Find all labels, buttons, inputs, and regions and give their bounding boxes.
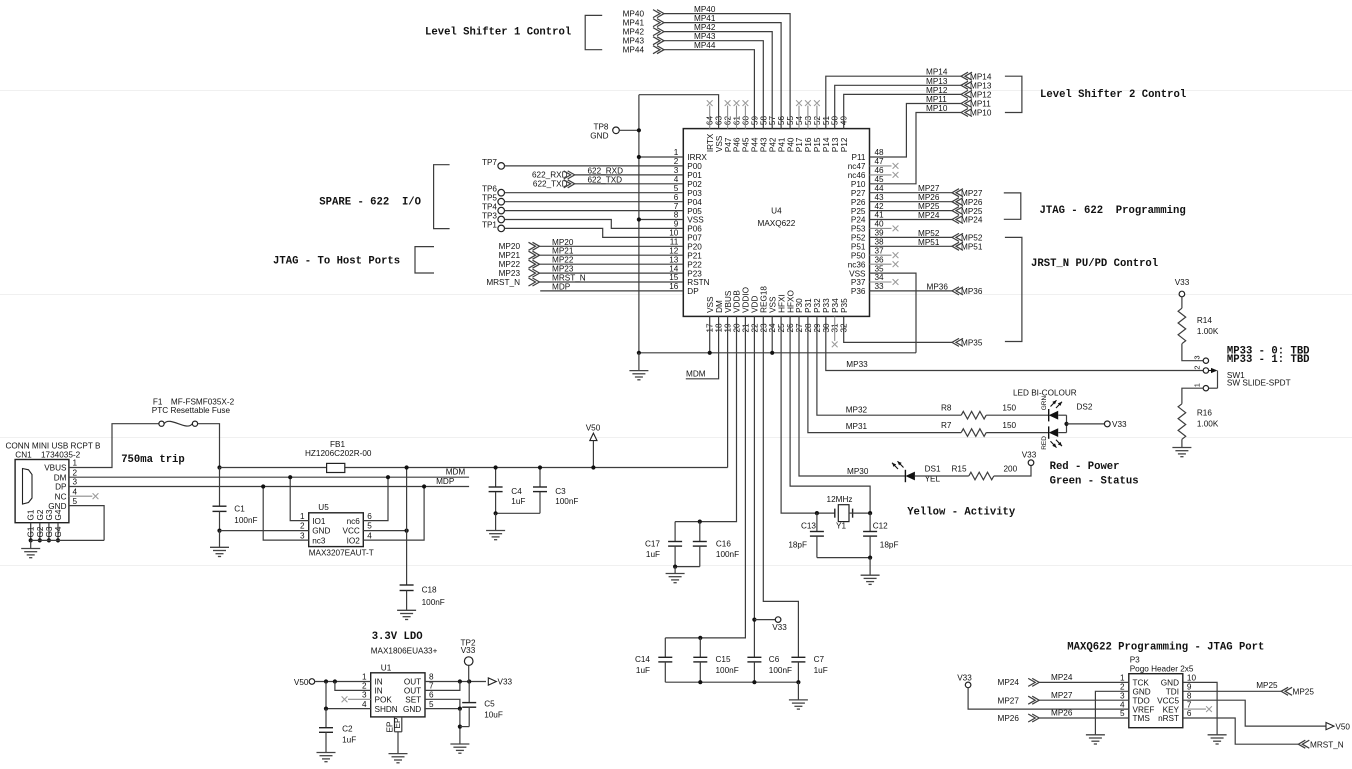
svg-text:P35: P35: [840, 298, 849, 313]
wire R14 to SW1 pin3: [1182, 344, 1203, 361]
svg-text:V33: V33: [1175, 278, 1190, 287]
svg-text:6: 6: [429, 691, 434, 700]
svg-text:MP27: MP27: [961, 189, 983, 198]
svg-text:5: 5: [429, 700, 434, 709]
svg-text:MP51: MP51: [961, 243, 983, 252]
svg-text:P3: P3: [1130, 656, 1140, 665]
svg-text:9: 9: [674, 220, 679, 229]
wire net MP21 to U4 pin 12: [540, 254, 684, 256]
U1 pin3 POK no-connect: [348, 698, 371, 700]
svg-text:P53: P53: [851, 225, 866, 234]
svg-text:Level Shifter 2 Control: Level Shifter 2 Control: [1040, 89, 1186, 101]
svg-text:37: 37: [875, 246, 885, 255]
wire net MP22 to U4 pin 13: [540, 263, 684, 265]
svg-text:1: 1: [1120, 674, 1125, 683]
svg-text:12MHz: 12MHz: [827, 495, 853, 504]
svg-text:C6: C6: [769, 655, 780, 664]
resistor R8 150: [961, 411, 986, 419]
wire SW1 pin1 to R16: [1182, 388, 1203, 404]
svg-text:C18: C18: [422, 586, 437, 595]
svg-text:43: 43: [875, 193, 885, 202]
wire net 622_RXD to U4 pin 3: [575, 174, 684, 176]
svg-text:TP1: TP1: [482, 220, 497, 229]
wire VSS vertical (TP8/pin1/pin8/pin63): [638, 95, 640, 353]
svg-text:G1: G1: [27, 509, 36, 520]
svg-text:5: 5: [1120, 709, 1125, 718]
svg-text:5: 5: [674, 184, 679, 193]
svg-text:3: 3: [1193, 355, 1202, 359]
svg-text:4: 4: [1120, 700, 1125, 709]
wire net MP43 to U4 pin 58: [664, 41, 763, 129]
svg-text:MP44: MP44: [694, 41, 716, 50]
wire net MP24 to P3 pin1 TCK: [1039, 681, 1129, 683]
svg-text:P25: P25: [851, 207, 866, 216]
svg-text:MP40: MP40: [623, 10, 645, 19]
svg-text:C12: C12: [873, 521, 888, 530]
svg-text:MP41: MP41: [623, 19, 645, 28]
wire ground bus below U4: [639, 352, 916, 354]
node junction HFXO/C12: [868, 511, 872, 515]
wire TP7 to U4 pin 2: [505, 165, 684, 167]
wire TP3 to U4 pin 9 P06: [505, 220, 684, 229]
svg-text:RED: RED: [1041, 436, 1048, 450]
wire net MP11 from U4 pin 48 P11: [870, 104, 962, 158]
svg-text:C17: C17: [645, 540, 660, 549]
wire net MP25 from P3 pin9 TDI: [1183, 690, 1281, 692]
wire R15 to V33: [994, 466, 1031, 477]
wire net MP44 to U4 pin 59: [664, 50, 754, 129]
svg-text:DP: DP: [687, 287, 699, 296]
wire net MP51 from U4 pin 38: [870, 245, 953, 247]
svg-text:1uF: 1uF: [636, 666, 650, 675]
svg-text:DS1: DS1: [925, 465, 941, 474]
svg-text:C1: C1: [234, 504, 245, 513]
svg-text:MP20: MP20: [499, 242, 521, 251]
svg-text:13: 13: [669, 255, 679, 264]
svg-text:NC: NC: [55, 492, 67, 501]
wire P3 pin2 GND: [1095, 691, 1128, 735]
svg-text:7: 7: [429, 682, 434, 691]
svg-text:MP24: MP24: [961, 216, 983, 225]
wire net MP31 from U4 pin 28 P31 to R7: [808, 316, 961, 432]
ground symbol P3 pin2: [1086, 734, 1105, 736]
svg-text:MAX3207EAUT-T: MAX3207EAUT-T: [309, 549, 374, 558]
wire net MP20 to U4 pin 11: [540, 245, 684, 247]
svg-text:P10: P10: [851, 180, 866, 189]
svg-text:SPARE - 622 I/O: SPARE - 622 I/O: [319, 197, 421, 209]
svg-text:C7: C7: [814, 655, 825, 664]
wire net MP32 from U4 pin 29 P32 to R8: [817, 316, 961, 415]
node junction bus-left: [637, 351, 641, 355]
svg-text:P43: P43: [760, 137, 769, 152]
svg-text:OUT: OUT: [404, 678, 421, 687]
capacitor C17 1uF: [674, 522, 676, 542]
svg-text:P03: P03: [687, 189, 702, 198]
svg-text:200: 200: [1004, 465, 1018, 474]
svg-text:P11: P11: [852, 153, 866, 162]
svg-text:C2: C2: [342, 725, 353, 734]
svg-text:P52: P52: [851, 234, 866, 243]
svg-text:MRST_N: MRST_N: [1310, 740, 1344, 749]
svg-text:P05: P05: [687, 207, 702, 216]
svg-text:P13: P13: [831, 137, 840, 152]
resistor R7 150: [961, 429, 986, 437]
wire net MP12 from U4 top pin 49: [844, 94, 961, 128]
svg-text:44: 44: [875, 184, 885, 193]
svg-text:3: 3: [362, 691, 367, 700]
ground symbol C2: [317, 752, 336, 754]
U4 no-connect pins top (64,62,61,60,54,53,52): [709, 106, 711, 129]
svg-text:MP25: MP25: [961, 207, 983, 216]
capacitor C12 18pF: [869, 513, 871, 531]
wire pin24 VSS stub to bus: [771, 316, 773, 352]
svg-text:TDI: TDI: [1166, 688, 1179, 697]
wire U5 pin6 nc6 to MDM: [363, 477, 388, 520]
wire C5 bottom: [460, 726, 469, 728]
svg-text:4: 4: [367, 531, 372, 540]
svg-text:R8: R8: [941, 404, 952, 413]
svg-text:VSS: VSS: [715, 135, 724, 152]
svg-text:6: 6: [674, 193, 679, 202]
svg-text:P45: P45: [742, 137, 751, 152]
svg-text:10uF: 10uF: [484, 711, 503, 720]
svg-text:P15: P15: [813, 137, 822, 152]
svg-text:nc3: nc3: [312, 536, 326, 545]
svg-text:MP23: MP23: [552, 265, 574, 274]
bracket JTAG 622: [1004, 193, 1021, 219]
svg-text:P07: P07: [687, 234, 702, 243]
svg-text:14: 14: [669, 264, 679, 273]
svg-text:TP8: TP8: [593, 123, 608, 132]
svg-text:VSS: VSS: [687, 216, 704, 225]
svg-text:VCC5: VCC5: [1157, 696, 1179, 705]
svg-text:P27: P27: [851, 189, 866, 198]
LED DS2 green element: [1048, 409, 1050, 421]
P3 pin7 KEY no-connect: [1183, 708, 1206, 710]
svg-text:MP11: MP11: [970, 100, 991, 109]
wire net MP35 from U4 pin 32 P35: [844, 316, 952, 342]
svg-text:GND: GND: [1161, 679, 1179, 688]
svg-text:15: 15: [669, 273, 679, 282]
svg-text:SET: SET: [405, 696, 421, 705]
svg-text:VSS: VSS: [706, 296, 715, 313]
svg-text:R14: R14: [1197, 316, 1212, 325]
capacitor C15 100nF: [698, 636, 702, 640]
ground symbol U1 EP: [389, 753, 408, 755]
svg-text:V33: V33: [461, 646, 476, 655]
svg-text:MP11: MP11: [926, 95, 947, 104]
svg-text:8: 8: [429, 673, 434, 682]
svg-text:MP26: MP26: [961, 198, 983, 207]
wire net MP26 from U4 pin 43: [870, 201, 953, 203]
svg-text:MP51: MP51: [918, 238, 940, 247]
svg-text:P32: P32: [813, 298, 822, 313]
wire net MP42 to U4 pin 57: [664, 32, 772, 129]
svg-text:MP52: MP52: [918, 229, 940, 238]
wire VBUS to fuse: [69, 424, 159, 468]
svg-text:6: 6: [367, 512, 372, 521]
node MP10 connector: [965, 109, 972, 117]
wire net MP36 from U4 pin 33 P36: [870, 290, 953, 292]
ground symbol P3 pin10: [1208, 734, 1227, 736]
svg-text:1uF: 1uF: [814, 666, 828, 675]
node junction fuse/rail: [217, 465, 221, 469]
svg-text:P31: P31: [804, 298, 813, 313]
wire net MP33 from U4 pin 30 P33 to SW1: [826, 316, 1203, 370]
svg-text:42: 42: [875, 202, 885, 211]
svg-text:MP27: MP27: [998, 696, 1020, 705]
svg-text:1.00K: 1.00K: [1197, 327, 1219, 336]
svg-text:2: 2: [1120, 683, 1125, 692]
svg-text:VBUS: VBUS: [724, 290, 733, 313]
bracket JRST_N: [1005, 237, 1022, 341]
capacitor C6 100nF: [747, 656, 761, 658]
svg-text:MDM: MDM: [686, 369, 706, 378]
svg-text:2: 2: [674, 157, 679, 166]
capacitor C3 100nF: [539, 468, 541, 488]
wire to U1 pin2 IN: [335, 682, 371, 691]
svg-text:OUT: OUT: [404, 687, 421, 696]
svg-text:HZ1206C202R-00: HZ1206C202R-00: [305, 449, 372, 458]
svg-text:3.3V LDO: 3.3V LDO: [372, 631, 423, 643]
svg-text:100nF: 100nF: [555, 497, 578, 506]
svg-text:150: 150: [1002, 404, 1016, 413]
svg-text:1: 1: [674, 148, 679, 157]
svg-text:100nF: 100nF: [716, 666, 739, 675]
svg-text:TP6: TP6: [482, 185, 497, 194]
svg-text:V33: V33: [957, 674, 972, 683]
svg-text:1: 1: [362, 673, 367, 682]
node MP35 connector: [956, 338, 963, 346]
svg-text:1.00K: 1.00K: [1197, 420, 1219, 429]
svg-text:C15: C15: [716, 655, 731, 664]
wire HFXO U4 pin 26 to crystal: [790, 316, 870, 513]
svg-text:P21: P21: [687, 251, 702, 260]
wire V50 to U1 pin1 IN: [315, 681, 371, 683]
svg-text:MP41: MP41: [694, 14, 716, 23]
svg-text:1: 1: [300, 512, 305, 521]
svg-text:CN1: CN1: [15, 451, 32, 460]
svg-text:10: 10: [669, 229, 679, 238]
svg-text:MP33 - 1: TBD: MP33 - 1: TBD: [1227, 354, 1310, 366]
svg-text:V50: V50: [294, 678, 309, 687]
resistor R16 1.00K: [1178, 404, 1186, 440]
wire TP1 to U4 pin 10 P07: [505, 228, 684, 237]
wire net MP41 to U4 pin 56: [664, 23, 781, 129]
svg-text:CONN MINI USB RCPT B: CONN MINI USB RCPT B: [6, 442, 101, 451]
svg-text:MP25: MP25: [1256, 681, 1278, 690]
op-amp U4 MAXQ622 MCU body: [683, 129, 869, 317]
svg-text:MP27: MP27: [918, 184, 940, 193]
ground symbol C4: [495, 513, 497, 530]
svg-text:V33: V33: [1022, 451, 1037, 460]
svg-text:C16: C16: [716, 540, 731, 549]
svg-text:FB1: FB1: [330, 440, 345, 449]
supply V33 at DS2: [1104, 421, 1110, 427]
svg-text:EP: EP: [393, 717, 402, 728]
node junction TP8: [637, 128, 641, 132]
node MP11 connector: [965, 100, 972, 108]
svg-text:MAXQ622: MAXQ622: [758, 219, 796, 228]
wire net MP24 from U4 pin 41: [870, 219, 953, 221]
wire CN1 shield bus: [31, 539, 104, 541]
wire DS2 anodes to V33: [1058, 414, 1066, 416]
wire U5 pin2 GND to C1: [220, 530, 309, 532]
svg-text:750ma trip: 750ma trip: [121, 454, 185, 466]
svg-text:100nF: 100nF: [234, 516, 257, 525]
wire U5 pin4 IO2 to MDP: [363, 487, 424, 541]
svg-text:P36: P36: [851, 287, 866, 296]
capacitor C18 100nF: [400, 584, 414, 586]
resistor R15 200: [969, 472, 994, 480]
LED DS1 YEL: [904, 470, 906, 482]
svg-text:TDO: TDO: [1133, 696, 1150, 705]
svg-text:4: 4: [674, 175, 679, 184]
svg-text:nc46: nc46: [848, 171, 866, 180]
wire TP4 to U4 pin 7: [505, 210, 684, 212]
node MP13 connector: [965, 81, 972, 89]
node junction HFXI/C13: [815, 511, 819, 515]
svg-text:C14: C14: [635, 655, 650, 664]
svg-text:40: 40: [875, 220, 885, 229]
wire net MP25 from U4 pin 42: [870, 210, 953, 212]
svg-text:3: 3: [73, 478, 78, 487]
svg-text:HFXO: HFXO: [786, 290, 795, 313]
svg-text:MP27: MP27: [1051, 691, 1073, 700]
svg-text:nc6: nc6: [347, 517, 361, 526]
svg-text:47: 47: [875, 157, 885, 166]
node junction pin1: [637, 155, 641, 159]
svg-text:2: 2: [73, 468, 78, 477]
svg-text:IN: IN: [375, 678, 383, 687]
node junction VCC rail tap: [405, 465, 409, 469]
svg-text:V50: V50: [1335, 722, 1350, 731]
wire net MP14 from U4 top pin 51: [826, 76, 961, 128]
svg-text:MDP: MDP: [436, 477, 455, 486]
svg-text:U1: U1: [381, 664, 392, 673]
svg-text:VDDB: VDDB: [733, 290, 742, 313]
wire R8 to DS2 green: [986, 414, 1048, 416]
svg-text:4: 4: [73, 487, 78, 496]
svg-text:46: 46: [875, 166, 885, 175]
svg-text:G4: G4: [54, 509, 63, 520]
svg-text:VDDIO: VDDIO: [742, 287, 751, 313]
supply V33 arrow at U1: [488, 678, 496, 685]
wire to U1 pin4 SHDN and C2: [326, 682, 371, 709]
svg-text:POK: POK: [375, 696, 393, 705]
capacitor C7 1uF: [791, 656, 805, 658]
svg-text:P33: P33: [822, 298, 831, 313]
svg-text:Pogo Header 2x5: Pogo Header 2x5: [1130, 665, 1194, 674]
svg-text:Red - Power: Red - Power: [1050, 461, 1120, 473]
svg-text:C4: C4: [511, 487, 522, 496]
svg-text:622_TXD: 622_TXD: [588, 175, 623, 184]
svg-text:P00: P00: [687, 162, 702, 171]
svg-text:41: 41: [875, 211, 885, 220]
svg-text:HFXI: HFXI: [777, 294, 786, 313]
wire net MDP from CN1 DP: [69, 486, 469, 488]
ground symbol C18: [397, 609, 416, 611]
svg-text:5: 5: [73, 497, 78, 506]
wire net MDM from U4 pin 18 DM: [686, 316, 719, 378]
svg-text:100nF: 100nF: [769, 666, 792, 675]
svg-text:Yellow - Activity: Yellow - Activity: [907, 507, 1016, 519]
wire net MRST_N to U4 pin 15: [540, 281, 684, 283]
svg-text:9: 9: [1187, 683, 1192, 692]
svg-text:U4: U4: [771, 207, 782, 216]
svg-text:P51: P51: [851, 243, 866, 252]
svg-text:1uF: 1uF: [646, 550, 660, 559]
svg-text:Y1: Y1: [836, 521, 846, 530]
ground symbol C1: [219, 531, 221, 548]
svg-text:P47: P47: [724, 137, 733, 152]
svg-text:GND: GND: [48, 502, 66, 511]
node MP12 connector: [965, 90, 972, 98]
svg-text:TP3: TP3: [482, 212, 497, 221]
U4 no-connect pins right (47,46,40,37,36,34): [870, 165, 892, 167]
svg-text:35: 35: [875, 264, 885, 273]
capacitor C4 1uF: [495, 468, 497, 488]
ground symbol cap bank: [797, 682, 799, 700]
svg-text:34: 34: [875, 273, 885, 282]
svg-text:GND: GND: [1133, 688, 1151, 697]
svg-text:MRST_N: MRST_N: [552, 274, 586, 283]
svg-text:MP21: MP21: [552, 247, 574, 256]
svg-text:P50: P50: [851, 251, 866, 260]
svg-text:P37: P37: [851, 278, 866, 287]
svg-text:G3: G3: [45, 526, 54, 537]
wire TP6 to U4 pin 5: [505, 192, 684, 194]
svg-text:MP10: MP10: [926, 104, 948, 113]
svg-text:TMS: TMS: [1133, 714, 1151, 723]
svg-text:R7: R7: [941, 421, 952, 430]
wire U1 pin7 OUT join: [425, 682, 460, 691]
wire net MP40 to U4 pin 55: [664, 14, 790, 129]
svg-text:8: 8: [674, 211, 679, 220]
wire P3 pin8 VCC5 to V50: [1183, 700, 1326, 726]
svg-text:4: 4: [362, 700, 367, 709]
svg-text:MDM: MDM: [446, 468, 466, 477]
svg-text:MP36: MP36: [961, 287, 983, 296]
svg-text:MP36: MP36: [927, 282, 949, 291]
svg-text:P34: P34: [831, 298, 840, 313]
svg-text:IO2: IO2: [347, 536, 361, 545]
svg-text:MP13: MP13: [926, 77, 948, 86]
svg-text:P17: P17: [795, 137, 804, 152]
svg-text:MAX1806EUA33+: MAX1806EUA33+: [371, 647, 438, 656]
svg-text:MP26: MP26: [998, 714, 1020, 723]
svg-text:P24: P24: [851, 216, 866, 225]
wire VBUS U4 pin 19: [727, 316, 729, 467]
svg-text:MAXQ622 Programming - JTAG Por: MAXQ622 Programming - JTAG Port: [1067, 642, 1264, 654]
svg-text:MP26: MP26: [1051, 709, 1073, 718]
svg-text:MDP: MDP: [552, 282, 571, 291]
svg-text:P42: P42: [768, 137, 777, 152]
svg-text:MP25: MP25: [918, 202, 940, 211]
wire DS1 to R15: [915, 475, 969, 477]
svg-text:Level Shifter 1 Control: Level Shifter 1 Control: [425, 27, 571, 39]
wire net 622_TXD to U4 pin 4: [575, 183, 684, 185]
svg-text:MP33: MP33: [846, 360, 868, 369]
wire CN1 GND pin5 return: [69, 506, 104, 541]
svg-text:VREF: VREF: [1133, 705, 1155, 714]
svg-text:MP10: MP10: [970, 109, 992, 118]
svg-text:MP24: MP24: [918, 211, 940, 220]
capacitor C5 10uF: [468, 682, 470, 703]
svg-text:100nF: 100nF: [716, 550, 739, 559]
wire U5 pin3 to MDP: [263, 487, 309, 541]
bracket JTAG host: [415, 247, 434, 273]
